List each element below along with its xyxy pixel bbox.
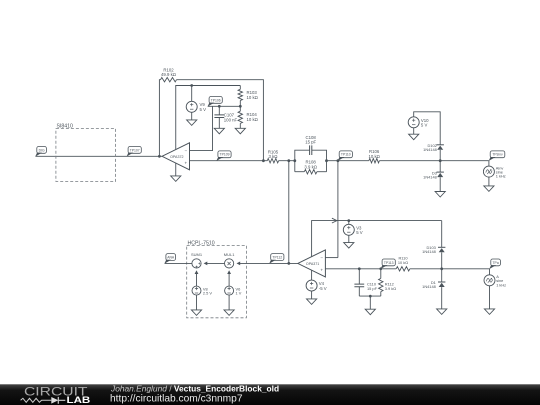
source V4 -5V — [306, 280, 317, 291]
wire down to OPA371 output — [288, 161, 290, 264]
svg-text:1 V: 1 V — [236, 291, 242, 296]
svg-text:OPA371: OPA371 — [306, 262, 319, 266]
resistor R104 10k — [238, 106, 242, 128]
junction feedback onto + input — [262, 159, 265, 162]
svg-text:TP107: TP107 — [130, 148, 140, 152]
wire V4 to ground — [311, 291, 313, 299]
svg-text:LAB: LAB — [67, 395, 91, 405]
flag TPsinv — [489, 151, 505, 161]
label HCPL-7510 — [188, 240, 215, 246]
flag TP107 — [127, 147, 142, 157]
label R102 value — [161, 67, 177, 77]
svg-text:TP113: TP113 — [384, 261, 394, 265]
svg-text:−: − — [184, 148, 187, 153]
wire OPA371 inverting input — [325, 257, 338, 259]
label V3 value — [356, 225, 363, 235]
svg-text:-5 V: -5 V — [319, 286, 327, 291]
diode D103 1N4148 — [438, 221, 445, 269]
svg-text:TPa: TPa — [492, 261, 498, 265]
resistor R108 3.9k (bottom branch) — [295, 170, 327, 174]
wire V8 to ground — [196, 295, 198, 310]
label SUM1 — [191, 252, 203, 257]
wire V8 into SUM1 (arrow up) — [195, 270, 199, 286]
ground below V10 — [409, 134, 419, 140]
svg-text:100 nF: 100 nF — [224, 117, 238, 122]
flag TP109 — [216, 151, 231, 161]
ground below V8 — [191, 310, 201, 316]
svg-text:OPA372: OPA372 — [170, 155, 183, 159]
diode D1 1N4148 — [438, 269, 445, 309]
flag TP112 — [269, 254, 284, 264]
flag DIG — [35, 147, 46, 157]
ground below V4 — [307, 299, 317, 305]
junction clamp node bottom — [440, 267, 443, 270]
footer bar — [0, 384, 540, 405]
flag TP106 — [208, 97, 223, 107]
source A sine 1kHz — [484, 269, 495, 286]
svg-text:10 kΩ: 10 kΩ — [398, 260, 408, 265]
source V6 1V — [225, 286, 234, 295]
flag TPa — [489, 259, 500, 269]
wire V10 to ground — [413, 128, 415, 134]
svg-text:TP112: TP112 — [272, 255, 282, 259]
wire V6 to ground — [228, 295, 230, 310]
wire V10 to D102 cathode — [414, 112, 441, 145]
svg-text:1N4148: 1N4148 — [422, 249, 436, 254]
wire R105 to tank — [279, 160, 295, 162]
label R105 value — [268, 149, 279, 159]
ground below A — [484, 309, 494, 315]
ground below V6 — [224, 310, 234, 316]
junction R112 tap — [379, 267, 382, 270]
wire MUL1 to SUM1 (arrow) — [204, 262, 225, 266]
label D3 value — [423, 170, 437, 179]
label R104 value — [247, 112, 259, 122]
resistor R105 3k — [267, 159, 278, 163]
ground at OPA372 V- — [171, 176, 181, 182]
wire V6 into MUL1 (arrow up) — [227, 270, 231, 286]
svg-text:1N4148: 1N4148 — [422, 284, 436, 289]
capacitor C110 15pF — [354, 269, 364, 296]
label V10 value — [421, 118, 429, 128]
wire V9 to supply rail — [191, 86, 193, 102]
flag TP113 — [381, 259, 396, 269]
svg-text:TPsinv: TPsinv — [492, 153, 503, 157]
svg-text:+: + — [184, 160, 187, 165]
wire V3 to supply rail — [348, 221, 350, 225]
ground below Ainv — [484, 186, 494, 192]
resistor R102 49.9k feedback — [159, 78, 263, 161]
svg-text:49.9 kΩ: 49.9 kΩ — [161, 72, 177, 77]
flag ANA — [164, 254, 175, 264]
svg-text:1N4148: 1N4148 — [423, 147, 437, 152]
label C107 value — [224, 113, 238, 123]
wire OPA372 V- pin to ground — [175, 163, 177, 176]
multiplier MUL1 — [225, 259, 234, 268]
label R108 value — [304, 160, 317, 170]
wire DIG to OPA372 output — [36, 155, 163, 157]
wire OPA371 V+ pin to supply rail — [312, 221, 442, 257]
label R110 value — [398, 255, 408, 264]
svg-text:+: + — [320, 267, 323, 272]
isolator SI8410 (dashed box) — [56, 129, 116, 182]
svg-text:1 kHz: 1 kHz — [496, 174, 506, 179]
ground below V9 — [187, 120, 197, 126]
svg-text:10 kΩ: 10 kΩ — [247, 95, 259, 100]
label D102 value — [423, 143, 437, 152]
label MUL1 — [224, 252, 235, 257]
wire C110/R112 bottom to ground — [359, 295, 381, 310]
resistor R106 10k — [369, 159, 380, 163]
svg-text:10 kΩ: 10 kΩ — [247, 117, 259, 122]
junction to OPA371 output — [287, 159, 290, 162]
source V3 5V — [343, 224, 354, 235]
svg-text:MUL1: MUL1 — [224, 252, 235, 257]
capacitor C107 100nF — [214, 106, 224, 128]
svg-text:5 V: 5 V — [356, 230, 363, 235]
label A value — [496, 274, 506, 287]
svg-text:http://circuitlab.com/c3nnmp7: http://circuitlab.com/c3nnmp7 — [110, 393, 243, 404]
label R106 value — [369, 149, 381, 159]
svg-text:DIG: DIG — [39, 148, 45, 152]
source V8 2.5V — [192, 286, 201, 295]
wire OPA372 non-inverting input — [190, 160, 268, 162]
diode D102 1N4148 — [437, 145, 444, 161]
ground below R104 — [235, 128, 245, 134]
source V9 5V — [186, 101, 197, 112]
label Ainv value — [496, 165, 506, 178]
label V4 value — [319, 281, 327, 291]
ground below C107 — [214, 128, 224, 134]
svg-text:ANA: ANA — [167, 255, 175, 259]
svg-text:1N4148: 1N4148 — [423, 175, 437, 180]
svg-text:15 pF: 15 pF — [305, 140, 316, 145]
junction OPA371 output feedback tap — [287, 262, 290, 265]
CircuitLab logo resistor zigzag — [21, 398, 52, 402]
wire OPA372 inverting input — [190, 106, 213, 150]
junction R103/R104 node — [239, 105, 242, 108]
summer SUM1 — [192, 259, 201, 268]
label C110 value — [367, 282, 378, 291]
svg-text:1 kHz: 1 kHz — [496, 282, 506, 287]
junction tank right — [325, 159, 328, 162]
label R103 value — [247, 90, 259, 100]
svg-text:3.9 kΩ: 3.9 kΩ — [304, 164, 317, 169]
wire OPA371 output to MUL1 (arrow) — [237, 262, 298, 266]
resistor R112 3.9k — [379, 269, 383, 296]
ground below C110/R112 — [365, 309, 375, 315]
wire A to ground — [489, 286, 491, 309]
svg-text:SI8410: SI8410 — [57, 124, 74, 130]
label V6 value — [236, 286, 242, 295]
ground below D3 — [435, 192, 445, 198]
capacitor C108 15pF (top branch) — [295, 145, 327, 171]
CircuitLab logo diode — [51, 397, 58, 404]
svg-text:3 kΩ: 3 kΩ — [269, 154, 279, 159]
svg-text:5 V: 5 V — [421, 123, 428, 128]
wire SUM1 output to ANA — [165, 262, 192, 264]
junction feedback tap on output wire — [158, 155, 161, 158]
junction V3 tap — [347, 219, 350, 222]
label C108 value — [305, 135, 316, 145]
ground below D1 — [437, 309, 447, 315]
svg-text:3.9 kΩ: 3.9 kΩ — [385, 286, 396, 291]
wire R106 to clamp node — [379, 160, 489, 162]
resistor R103 10k — [238, 86, 242, 107]
junction tank left — [293, 159, 296, 162]
arrow on supply rail — [332, 218, 337, 223]
source V10 5V — [408, 117, 419, 128]
label D103 value — [422, 245, 436, 254]
junction clamp node top — [439, 159, 442, 162]
junction TP110 node — [337, 159, 340, 162]
label V9 value — [200, 102, 207, 112]
wire tank to R106 — [327, 160, 369, 162]
label R112 value — [385, 282, 396, 291]
svg-text:5 V: 5 V — [200, 107, 207, 112]
svg-text:SUM1: SUM1 — [191, 252, 203, 257]
wire R110 to clamp node — [410, 268, 490, 270]
ground below V3 — [344, 243, 354, 249]
label SI8410 — [57, 124, 74, 130]
junction C110 tap — [358, 267, 361, 270]
diode D3 1N4148 — [437, 161, 444, 192]
resistor R110 10k — [396, 267, 410, 271]
svg-text:−: − — [320, 255, 323, 260]
source Ainv sine 1kHz — [483, 161, 494, 177]
label V8 value — [203, 286, 212, 295]
svg-text:HCPL-7510: HCPL-7510 — [188, 240, 215, 246]
wire Ainv to ground — [488, 177, 490, 186]
flag TP110 — [338, 151, 353, 161]
wire TP110 node down to OPA371 inverting input — [337, 161, 339, 258]
wire V9 to ground — [191, 112, 193, 120]
svg-text:Johan.Englund / Vectus_Encoder: Johan.Englund / Vectus_EncoderBlock_old — [110, 383, 279, 393]
op-amp U1 OPA372 — [162, 143, 190, 170]
wire node to R103/R104 — [208, 105, 241, 107]
junction V9 tap on supply rail — [190, 84, 193, 87]
svg-text:TP109: TP109 — [220, 153, 230, 157]
op-amp U2 OPA371 — [298, 250, 326, 277]
wire OPA371 V- pin to V4 — [311, 270, 313, 280]
svg-text:TP106: TP106 — [211, 98, 221, 102]
wire OPA372 V+ pin to supply rail — [176, 86, 241, 150]
svg-text:TP110: TP110 — [341, 153, 351, 157]
wire OPA371 non-inverting input — [325, 268, 396, 270]
svg-text:2.5 V: 2.5 V — [203, 291, 212, 296]
wire V3 to ground — [348, 235, 350, 242]
junction C107 tap — [218, 105, 221, 108]
isolation amp HCPL-7510 (dashed box) — [187, 245, 247, 317]
svg-text:10 kΩ: 10 kΩ — [369, 154, 381, 159]
svg-text:15 pF: 15 pF — [367, 286, 378, 291]
label D1 value — [422, 280, 436, 289]
